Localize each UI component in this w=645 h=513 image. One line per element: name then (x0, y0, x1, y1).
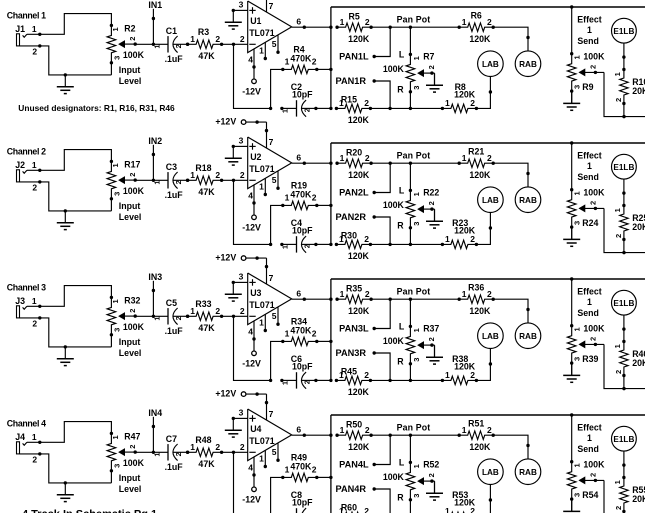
svg-text:2: 2 (487, 17, 492, 27)
svg-text:R2: R2 (124, 23, 135, 33)
ground at effect pot R54 (563, 500, 580, 513)
ground at pan pot R7 (426, 73, 443, 92)
svg-text:L: L (399, 321, 405, 331)
svg-text:1: 1 (445, 506, 450, 513)
svg-text:4: 4 (248, 191, 253, 201)
svg-text:1: 1 (462, 289, 467, 299)
wire pot R47 wiper to IN4 (135, 451, 153, 453)
svg-text:R51: R51 (468, 419, 484, 429)
svg-text:RAB: RAB (519, 60, 537, 69)
wire pot R32 pin3 to ground rail (110, 335, 112, 347)
wire R35 pin2 to pan pot L row (371, 298, 459, 301)
wire effect pot R24 wiper to send row (604, 208, 645, 254)
node IN2 (148, 136, 162, 182)
wire inverting node down to feedback row (234, 44, 273, 110)
svg-text:U3: U3 (250, 288, 261, 298)
svg-text:2: 2 (589, 337, 598, 341)
svg-text:J1: J1 (15, 24, 25, 34)
svg-text:120K: 120K (454, 362, 476, 372)
wire R55 pin2 to send row (623, 512, 625, 513)
svg-text:3: 3 (113, 464, 122, 468)
svg-text:R: R (397, 492, 404, 502)
svg-text:20K: 20K (632, 86, 645, 96)
bus terminal RAB (515, 51, 541, 77)
svg-text:R50: R50 (346, 420, 362, 430)
op-amp U4 pin7 V+ wire (267, 394, 274, 420)
svg-text:1: 1 (281, 381, 290, 385)
effect pot R39 100K (567, 323, 605, 365)
resistor R25 20K (613, 204, 645, 241)
resistor R49 470K feedback (281, 453, 318, 482)
wire R45 pin2 to R38 pin1 (370, 379, 442, 381)
svg-text:2: 2 (215, 442, 220, 452)
effect pot R24 100K (567, 187, 605, 229)
svg-text:2: 2 (215, 170, 220, 180)
svg-text:R30: R30 (341, 231, 357, 241)
svg-text:1: 1 (573, 191, 582, 195)
wire pan pot R22 wiper to ground (434, 209, 436, 221)
svg-text:Level: Level (119, 212, 142, 222)
svg-text:1: 1 (613, 344, 622, 348)
resistor R21 120K (458, 147, 495, 180)
-12V supply terminal for U3 (242, 351, 261, 368)
op-amp U3 pin5 offset null stub (272, 307, 280, 326)
svg-text:2: 2 (174, 452, 183, 456)
svg-text:1: 1 (340, 17, 345, 27)
svg-text:2: 2 (303, 108, 312, 112)
svg-text:2: 2 (240, 442, 245, 452)
svg-text:2: 2 (312, 192, 317, 202)
svg-text:20K: 20K (632, 494, 645, 504)
svg-text:2: 2 (174, 316, 183, 320)
resistor R34 470K feedback (281, 317, 318, 346)
resistor R18 47K (186, 163, 223, 197)
svg-text:1: 1 (285, 56, 290, 66)
svg-text:2: 2 (427, 201, 436, 205)
-12V supply terminal for U4 (242, 487, 261, 504)
op-amp U1 pin1 offset null stub (259, 42, 267, 60)
resistor R20 120K (335, 148, 372, 180)
resistor R38 120K (441, 354, 478, 385)
svg-text:1: 1 (340, 425, 345, 435)
ground at jack J3 (57, 347, 74, 366)
svg-text:U2: U2 (250, 152, 261, 162)
svg-text:-12V: -12V (242, 494, 261, 504)
svg-text:R37: R37 (423, 324, 439, 334)
svg-text:1: 1 (111, 27, 120, 31)
potentiometer R32 100K Input Level (107, 295, 144, 358)
resistor R6 120K (458, 11, 495, 44)
op-amp U3 pin3 wire and ground (225, 272, 248, 302)
svg-text:120K: 120K (469, 34, 491, 44)
svg-text:L: L (399, 185, 405, 195)
label Effect 1 Send (577, 14, 602, 46)
svg-text:1: 1 (152, 44, 161, 48)
svg-text:120K: 120K (348, 170, 370, 180)
resistor R55 20K (613, 476, 645, 513)
potentiometer R2 100K Input Level (107, 23, 144, 86)
channel 1 title (7, 10, 46, 20)
svg-text:5: 5 (272, 311, 277, 321)
wire E1LB to R10 (622, 43, 625, 69)
svg-text:2: 2 (128, 445, 137, 449)
svg-text:Effect: Effect (577, 286, 602, 296)
svg-text:Pan Pot: Pan Pot (397, 287, 431, 297)
svg-text:2: 2 (312, 56, 317, 66)
svg-text:1: 1 (259, 46, 264, 56)
svg-text:2: 2 (240, 34, 245, 44)
svg-text:R54: R54 (582, 490, 598, 500)
svg-text:Input: Input (119, 65, 141, 75)
wire jack J1 pin1 to pot R2 pin1 (27, 14, 112, 36)
svg-text:+12V: +12V (215, 117, 236, 127)
wire feedback up to R19 (271, 205, 283, 244)
resistor R3 47K (186, 27, 223, 61)
output bus of U2 (330, 143, 332, 244)
bus terminal LAB (478, 323, 504, 349)
resistor R35 120K (335, 284, 372, 316)
wire feedback up to R4 (271, 69, 283, 108)
svg-text:.1uF: .1uF (165, 190, 184, 200)
svg-text:1: 1 (152, 452, 161, 456)
resistor R19 470K feedback (281, 181, 318, 210)
svg-text:1: 1 (285, 328, 290, 338)
page title (cropped) (22, 509, 157, 513)
svg-text:3: 3 (239, 408, 244, 418)
svg-text:47K: 47K (198, 323, 215, 333)
svg-text:PAN3R: PAN3R (336, 348, 367, 358)
svg-text:4 Track In Schematic Pg 1: 4 Track In Schematic Pg 1 (22, 509, 157, 513)
svg-text:2: 2 (215, 34, 220, 44)
wire rail to effect pot R54 (571, 415, 573, 462)
svg-text:R35: R35 (346, 284, 362, 294)
resistor R8 120K (441, 82, 478, 113)
svg-text:1: 1 (445, 234, 450, 244)
wire effect pot R39 pin3 to ground (571, 363, 573, 375)
svg-text:U4: U4 (250, 424, 261, 434)
capacitor C3 .1uF (152, 162, 189, 200)
op-amp U3 TL071 (248, 273, 292, 325)
svg-text:120K: 120K (348, 387, 370, 397)
svg-text:1: 1 (32, 296, 37, 306)
svg-text:R18: R18 (195, 163, 211, 173)
svg-text:J4: J4 (15, 432, 25, 442)
svg-text:47K: 47K (198, 187, 215, 197)
op-amp U3 pin1 offset null stub (259, 314, 267, 332)
svg-text:10pF: 10pF (292, 226, 313, 236)
svg-text:2: 2 (32, 47, 37, 57)
svg-text:5: 5 (272, 39, 277, 49)
svg-text:R7: R7 (423, 52, 434, 62)
svg-text:7: 7 (269, 409, 274, 419)
ground at jack J2 (57, 211, 74, 230)
wire R19 pin2 to bus (317, 204, 333, 207)
capacitor C5 .1uF (152, 298, 189, 336)
svg-text:Send: Send (577, 444, 599, 454)
svg-text:20K: 20K (632, 222, 645, 232)
wire effect pot R54 wiper to send row (604, 480, 645, 513)
svg-text:470K: 470K (290, 462, 312, 472)
op-amp U2 pin7 V+ wire (267, 122, 274, 148)
svg-text:R6: R6 (471, 11, 482, 21)
svg-text:R32: R32 (124, 295, 140, 305)
svg-text:TL071: TL071 (249, 436, 275, 446)
bus terminal RAB (515, 459, 541, 485)
-12V supply terminal for U1 (242, 79, 261, 96)
svg-text:E1LB: E1LB (613, 27, 634, 36)
wire R48 to op-amp U4 pin2 (222, 442, 248, 454)
svg-text:3: 3 (573, 357, 582, 361)
svg-text:LAB: LAB (482, 196, 499, 205)
top rail channel 2 (331, 141, 645, 144)
potentiometer R17 100K Input Level (107, 159, 144, 222)
capacitor C6 10pF feedback (280, 354, 317, 389)
svg-text:2: 2 (312, 464, 317, 474)
resistor R36 120K (458, 283, 495, 316)
svg-text:6: 6 (296, 289, 301, 299)
wire R21 pin2 to bus RAB (493, 163, 530, 187)
svg-text:1: 1 (573, 463, 582, 467)
svg-text:10pF: 10pF (292, 498, 313, 508)
wire pot R17 wiper to IN2 (135, 179, 153, 181)
svg-text:1: 1 (412, 328, 421, 332)
bus terminal LAB (478, 51, 504, 77)
wire pot R17 pin3 to ground rail (110, 199, 112, 211)
op-amp U2 TL071 (248, 137, 292, 189)
jack J3 (15, 296, 37, 329)
wire R18 to op-amp U2 pin2 (222, 170, 248, 182)
wire LAB to R23 (476, 213, 492, 245)
svg-text:Send: Send (577, 36, 599, 46)
svg-text:R: R (397, 356, 404, 366)
svg-text:100K: 100K (123, 322, 145, 332)
svg-text:Input: Input (119, 337, 141, 347)
svg-text:1: 1 (152, 316, 161, 320)
svg-text:1: 1 (445, 370, 450, 380)
resistor R50 120K (335, 420, 372, 452)
svg-text:6: 6 (296, 17, 301, 27)
svg-text:1: 1 (32, 24, 37, 34)
svg-text:2: 2 (312, 328, 317, 338)
svg-text:1: 1 (573, 55, 582, 59)
svg-text:TL071: TL071 (249, 28, 275, 38)
wire feedback up to R49 (271, 477, 283, 513)
resistor R53 120K (441, 490, 478, 513)
jack J2 (15, 160, 37, 193)
svg-text:2: 2 (470, 370, 475, 380)
svg-text:1: 1 (412, 192, 421, 196)
svg-text:U1: U1 (250, 16, 261, 26)
wire effect pot R39 wiper to send row (604, 344, 645, 390)
svg-text:RAB: RAB (519, 468, 537, 477)
svg-text:Pan Pot: Pan Pot (397, 423, 431, 433)
svg-text:1: 1 (462, 17, 467, 27)
jack J1 (15, 24, 37, 57)
svg-text:C3: C3 (166, 162, 177, 172)
node IN3 (148, 272, 162, 318)
top rail channel 3 (331, 277, 645, 280)
svg-text:C7: C7 (166, 434, 177, 444)
svg-text:1: 1 (285, 464, 290, 474)
resistor R10 20K (613, 68, 645, 105)
svg-text:1: 1 (32, 432, 37, 442)
svg-text:R22: R22 (423, 188, 439, 198)
svg-text:7: 7 (269, 273, 274, 283)
resistor R33 47K (186, 299, 223, 333)
wire op-amp U4 pin6 output to bus (292, 425, 333, 437)
svg-text:5: 5 (272, 447, 277, 457)
label Effect 1 Send (577, 286, 602, 318)
wire jack J1 pin2 to ground (19, 44, 111, 76)
svg-text:R47: R47 (124, 431, 140, 441)
svg-text:R15: R15 (341, 95, 357, 105)
svg-text:2: 2 (240, 170, 245, 180)
svg-text:3: 3 (412, 358, 421, 362)
svg-text:470K: 470K (290, 326, 312, 336)
svg-text:R24: R24 (582, 218, 598, 228)
capacitor C1 .1uF (152, 26, 189, 64)
svg-text:R21: R21 (468, 147, 484, 157)
svg-text:3: 3 (573, 85, 582, 89)
svg-text:1: 1 (587, 161, 592, 171)
svg-text:R33: R33 (195, 299, 211, 309)
label Pan Pot (397, 423, 431, 433)
svg-text:PAN3L: PAN3L (339, 324, 369, 334)
node IN1 (148, 0, 162, 46)
svg-text:100K: 100K (383, 336, 405, 346)
svg-text:R52: R52 (423, 460, 439, 470)
svg-text:L: L (399, 49, 405, 59)
svg-text:PAN4L: PAN4L (339, 460, 369, 470)
wire op-amp U3 pin6 output to bus (292, 289, 333, 301)
svg-text:Level: Level (119, 76, 142, 86)
svg-text:3: 3 (113, 192, 122, 196)
wire jack J4 pin2 to ground (19, 452, 111, 484)
svg-text:R45: R45 (341, 367, 357, 377)
wire R30 pin2 to R23 pin1 (370, 243, 442, 245)
svg-text:10pF: 10pF (292, 90, 313, 100)
net label PAN3L (339, 299, 390, 333)
resistor R48 47K (186, 435, 223, 469)
effect pot R9 100K (567, 51, 605, 93)
svg-text:3: 3 (412, 222, 421, 226)
wire R36 pin2 to bus RAB (493, 299, 530, 323)
wire LAB to R38 (476, 349, 492, 381)
op-amp U2 pin4 V- wire (248, 185, 255, 215)
op-amp U4 pin4 V- wire (248, 457, 255, 487)
channel 3 title (7, 282, 46, 292)
resistor R40 20K (613, 340, 645, 377)
svg-text:100K: 100K (583, 187, 605, 197)
svg-text:Channel 1: Channel 1 (7, 10, 46, 20)
svg-text:R3: R3 (198, 27, 209, 37)
svg-text:6: 6 (296, 153, 301, 163)
bus terminal RAB (515, 323, 541, 349)
ground at pan pot R22 (426, 209, 443, 228)
svg-text:120K: 120K (454, 226, 476, 236)
svg-text:E1LB: E1LB (613, 163, 634, 172)
svg-text:2: 2 (240, 306, 245, 316)
op-amp U1 pin4 V- wire (248, 49, 255, 79)
svg-text:1: 1 (587, 25, 592, 35)
svg-text:Effect: Effect (577, 422, 602, 432)
svg-text:Input: Input (119, 473, 141, 483)
svg-text:2: 2 (614, 370, 623, 374)
wire LAB to R53 (476, 485, 492, 513)
wire rail to effect pot R9 (571, 7, 573, 54)
svg-text:3: 3 (239, 272, 244, 282)
svg-text:PAN1L: PAN1L (339, 52, 369, 62)
svg-text:C5: C5 (166, 298, 177, 308)
svg-text:Pan Pot: Pan Pot (397, 151, 431, 161)
wire jack J4 pin1 to pot R47 pin1 (27, 422, 112, 444)
bus terminal E1LB (612, 290, 637, 315)
op-amp U3 pin4 V- wire (248, 321, 255, 351)
svg-text:1: 1 (340, 289, 345, 299)
svg-text:3: 3 (113, 56, 122, 60)
net label PAN2L (339, 163, 390, 197)
bus terminal RAB (515, 187, 541, 213)
svg-text:1: 1 (587, 297, 592, 307)
svg-text:L: L (399, 457, 405, 467)
svg-text:1: 1 (111, 163, 120, 167)
op-amp U2 pin1 offset null stub (259, 178, 267, 196)
op-amp U2 pin3 wire and ground (225, 136, 248, 166)
svg-text:1: 1 (412, 464, 421, 468)
svg-text:1: 1 (259, 182, 264, 192)
svg-text:2: 2 (364, 506, 369, 513)
svg-text:-12V: -12V (242, 86, 261, 96)
wire effect pot R9 wiper to send row (604, 72, 645, 118)
svg-text:47K: 47K (198, 459, 215, 469)
svg-text:2: 2 (128, 37, 137, 41)
svg-text:2: 2 (365, 17, 370, 27)
wire op-amp U2 pin6 output to bus (292, 153, 333, 165)
bus terminal LAB (478, 187, 504, 213)
svg-text:2: 2 (589, 201, 598, 205)
svg-text:1: 1 (340, 153, 345, 163)
svg-text:2: 2 (174, 44, 183, 48)
svg-text:R17: R17 (124, 159, 140, 169)
svg-text:2: 2 (128, 173, 137, 177)
svg-text:120K: 120K (348, 34, 370, 44)
wire R10 pin2 to send row (623, 104, 625, 117)
svg-text:J2: J2 (15, 160, 25, 170)
svg-text:1: 1 (111, 299, 120, 303)
svg-text:R: R (397, 84, 404, 94)
svg-text:+12V: +12V (215, 389, 236, 399)
svg-text:2: 2 (427, 337, 436, 341)
svg-text:.1uF: .1uF (165, 326, 184, 336)
svg-text:100K: 100K (123, 458, 145, 468)
svg-text:LAB: LAB (482, 60, 499, 69)
svg-text:1: 1 (462, 425, 467, 435)
svg-text:RAB: RAB (519, 332, 537, 341)
svg-text:120K: 120K (348, 306, 370, 316)
wire R20 pin2 to pan pot L row (371, 162, 459, 165)
wire E1LB to R25 (622, 179, 625, 205)
label Effect 1 Send (577, 422, 602, 454)
svg-text:TL071: TL071 (249, 300, 275, 310)
wire jack J3 pin2 to ground (19, 316, 111, 348)
svg-text:Channel 3: Channel 3 (7, 282, 46, 292)
svg-text:4: 4 (248, 55, 253, 65)
wire jack J2 pin2 to ground (19, 180, 111, 212)
svg-text:2: 2 (32, 319, 37, 329)
svg-text:5: 5 (272, 175, 277, 185)
svg-text:R60: R60 (341, 503, 357, 513)
svg-text:IN3: IN3 (148, 272, 162, 282)
